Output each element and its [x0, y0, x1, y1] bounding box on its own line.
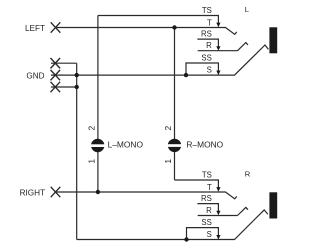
svg-text:R: R — [206, 206, 212, 215]
svg-text:S: S — [207, 66, 212, 75]
svg-text:SS: SS — [201, 218, 211, 227]
svg-text:RS: RS — [201, 30, 212, 39]
svg-text:L–MONO: L–MONO — [108, 140, 144, 150]
svg-text:LEFT: LEFT — [25, 24, 45, 33]
svg-text:RS: RS — [201, 194, 212, 203]
svg-text:2: 2 — [87, 125, 97, 130]
svg-text:T: T — [207, 183, 212, 192]
svg-text:R: R — [245, 170, 251, 179]
svg-text:T: T — [207, 18, 212, 27]
svg-text:1: 1 — [87, 159, 97, 164]
svg-text:TS: TS — [202, 170, 212, 179]
svg-text:L: L — [245, 5, 249, 14]
svg-text:RIGHT: RIGHT — [20, 188, 45, 197]
svg-text:1: 1 — [163, 159, 173, 164]
svg-text:R–MONO: R–MONO — [186, 140, 223, 150]
svg-text:R: R — [206, 41, 212, 50]
svg-text:S: S — [207, 230, 212, 239]
svg-text:2: 2 — [163, 125, 173, 130]
svg-text:TS: TS — [202, 6, 212, 15]
svg-text:SS: SS — [201, 53, 211, 62]
svg-text:GND: GND — [26, 71, 44, 80]
